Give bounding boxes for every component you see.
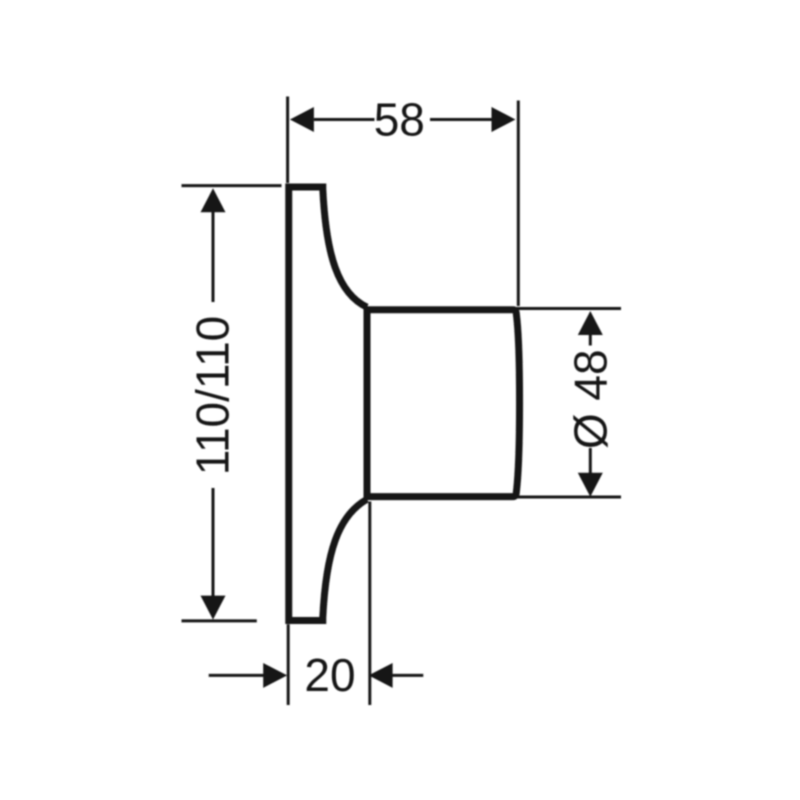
dimension line 110/110 lower segment xyxy=(212,488,215,597)
svg-text:58: 58 xyxy=(374,93,425,145)
svg-text:Ø 48: Ø 48 xyxy=(565,349,617,449)
escutcheon plate profile (side view, thick outline) xyxy=(289,187,367,621)
svg-text:20: 20 xyxy=(304,649,355,701)
svg-text:110/110: 110/110 xyxy=(187,316,239,475)
extension line bottom of dim 110/110 xyxy=(182,619,257,622)
arrowhead dim 58 left xyxy=(290,107,314,132)
dimension line 20 right tail xyxy=(392,674,423,677)
dimension line diameter 48 upper segment xyxy=(589,335,592,346)
arrowhead dim diameter 48 top xyxy=(578,311,603,335)
extension line top of dim 110/110 xyxy=(182,184,282,187)
arrowhead dim 110/110 top xyxy=(201,188,226,212)
extension line bottom of dim diameter 48 xyxy=(516,496,621,499)
arrowhead dim 110/110 bottom xyxy=(201,596,226,620)
dimension line diameter 48 lower segment xyxy=(589,448,592,474)
extension line right of dim 58 xyxy=(517,101,520,307)
dimension line 58 left segment xyxy=(314,118,375,121)
extension line right of dim 20 xyxy=(368,502,371,706)
extension line left of dim 58 xyxy=(286,97,289,184)
knob / cylinder profile (thick outline) xyxy=(367,310,520,497)
arrowhead dim 58 right xyxy=(492,107,516,132)
arrowhead dim 20 left (points right) xyxy=(263,663,287,688)
dimension line 110/110 upper segment xyxy=(212,211,215,302)
arrowhead dim diameter 48 bottom xyxy=(578,473,603,497)
extension line top of dim diameter 48 xyxy=(517,307,622,310)
arrowhead dim 20 right (points left) xyxy=(369,663,393,688)
dimension line 58 right segment xyxy=(430,118,492,121)
extension line left of dim 20 xyxy=(287,624,290,705)
dimension line 20 left tail xyxy=(209,674,264,677)
